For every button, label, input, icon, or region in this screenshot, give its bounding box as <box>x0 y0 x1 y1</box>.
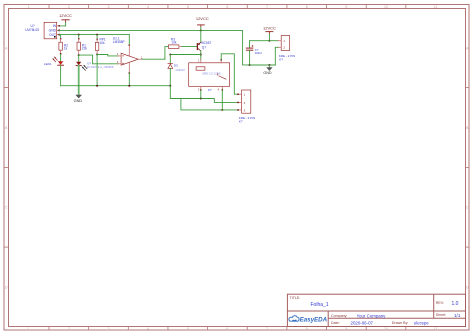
pin 2 coil bottom <box>200 86 202 90</box>
svg-text:2: 2 <box>68 327 70 331</box>
svg-text:4: 4 <box>147 327 149 331</box>
svg-text:D3: D3 <box>174 63 178 67</box>
wire R3 to base <box>182 46 197 48</box>
wire 12VCC2 down <box>200 27 202 30</box>
svg-text:4: 4 <box>147 5 149 9</box>
svg-text:LM358P: LM358P <box>113 40 125 44</box>
svg-text:EasyEDA: EasyEDA <box>300 317 328 324</box>
svg-text:9: 9 <box>345 5 347 9</box>
svg-text:10k: 10k <box>171 41 177 45</box>
svg-text:22k: 22k <box>82 47 88 51</box>
op-amp V- pin 4 <box>128 62 130 73</box>
pin OUT <box>57 34 60 36</box>
svg-text:K?: K? <box>279 57 283 61</box>
node junction D3 bottom / bus <box>169 85 171 87</box>
svg-text:2020-06-07: 2020-06-07 <box>351 321 374 326</box>
svg-text:1/1: 1/1 <box>454 313 461 318</box>
svg-text:LM78L05: LM78L05 <box>25 28 39 32</box>
svg-text:3: 3 <box>108 327 110 331</box>
svg-text:DY-IRX33-A_C99668: DY-IRX33-A_C99668 <box>87 65 114 69</box>
wire relay coil bottom down <box>200 90 202 98</box>
svg-text:REV:: REV: <box>436 301 444 305</box>
svg-text:1N4007: 1N4007 <box>175 68 185 72</box>
svg-text:1: 1 <box>28 5 30 9</box>
svg-text:Date:: Date: <box>331 321 340 325</box>
wire relay NO pin down <box>221 90 223 110</box>
wire 12VCC3 down <box>268 34 270 41</box>
pin 3 common top <box>220 60 222 63</box>
svg-text:elecepe: elecepe <box>414 320 429 325</box>
wire ground bus <box>61 85 171 87</box>
diode D3 1N4007 <box>168 55 186 86</box>
EasyEDA logo <box>289 316 328 324</box>
pin 4 NO bottom <box>221 86 223 90</box>
svg-text:BC557: BC557 <box>202 41 212 45</box>
svg-text:LED1: LED1 <box>44 62 52 66</box>
svg-text:Drawn By:: Drawn By: <box>392 321 409 325</box>
output pin 1 <box>138 58 142 60</box>
svg-text:2: 2 <box>68 5 70 9</box>
svg-text:Sheet:: Sheet: <box>436 313 446 317</box>
ground GND1 <box>74 86 83 103</box>
wire ground bus right <box>250 64 276 66</box>
resistor R3 10k <box>165 37 182 59</box>
node junction photodiode top <box>78 54 80 56</box>
svg-text:GND: GND <box>263 71 272 75</box>
svg-text:GND: GND <box>74 98 83 103</box>
power flag 12VCC (VCC1) <box>59 13 72 22</box>
wire to op-amp pin 3 <box>79 55 118 64</box>
wire 12VCC to U? IN <box>59 23 65 26</box>
transistor Q? BC557 <box>197 30 211 51</box>
svg-text:12VCC: 12VCC <box>59 13 72 18</box>
trimmer RP1 10k <box>95 35 106 55</box>
svg-text:7: 7 <box>266 5 268 9</box>
svg-text:5: 5 <box>187 327 189 331</box>
LED LED1 <box>44 54 63 85</box>
svg-text:11: 11 <box>434 5 438 9</box>
svg-text:10k: 10k <box>100 41 106 45</box>
node junction 12V / C1 / K pin1 <box>268 40 270 42</box>
svg-text:1.0: 1.0 <box>452 301 459 307</box>
node junction C1 bottom <box>249 64 251 66</box>
relay K? SRD-1C-12DS <box>189 59 230 92</box>
svg-text:1k: 1k <box>64 47 68 51</box>
svg-text:7: 7 <box>266 327 268 331</box>
wire D3 bottom to relay coil bottom and 3pin pin2 <box>170 86 238 103</box>
svg-text:12VCC: 12VCC <box>196 16 209 21</box>
svg-text:Company:: Company: <box>331 314 347 318</box>
svg-text:Q?: Q? <box>202 45 206 49</box>
wire collector down <box>200 51 202 59</box>
svg-text:100uf: 100uf <box>255 51 262 55</box>
IR photodiode U? DY-IRX33-A <box>76 55 114 86</box>
wire op-amp output <box>142 58 165 60</box>
svg-text:6: 6 <box>226 327 228 331</box>
svg-text:12VCC: 12VCC <box>263 26 276 31</box>
svg-text:1: 1 <box>28 327 30 331</box>
svg-text:3: 3 <box>108 5 110 9</box>
wire D3 top to collector <box>170 54 201 56</box>
svg-text:TITLE:: TITLE: <box>290 296 301 300</box>
svg-text:K?: K? <box>239 120 243 124</box>
svg-text:Folha_1: Folha_1 <box>311 302 329 308</box>
pin IN <box>57 25 60 27</box>
pin 1 coil top <box>200 59 202 63</box>
wire branch to 3pin pin3 <box>181 99 238 110</box>
svg-text:10: 10 <box>384 5 388 9</box>
power flag 12VCC (VCC3) <box>263 26 276 35</box>
wire to 2pin pin1 and C1 <box>250 40 278 42</box>
svg-text:6: 6 <box>226 5 228 9</box>
wire relay common to 3pin pin1 <box>221 54 238 94</box>
ground GND2 <box>263 65 272 75</box>
pin GND <box>57 29 60 31</box>
node junction collector / D3 <box>200 54 202 56</box>
svg-text:8: 8 <box>306 327 308 331</box>
svg-text:11: 11 <box>434 327 438 331</box>
wire rail lower (OUT rail) <box>59 34 129 36</box>
wire 2pin pin2 to ground bus <box>275 47 278 65</box>
svg-text:10: 10 <box>384 327 388 331</box>
resistor R1 22k <box>77 35 87 56</box>
connector K? KRE - 2 PIN <box>278 36 295 62</box>
svg-text:8: 8 <box>306 5 308 9</box>
capacitor C1 100uf <box>246 45 261 65</box>
svg-text:9: 9 <box>345 327 347 331</box>
connector K? KRE - 3 PIN <box>237 90 255 124</box>
svg-text:Your Company: Your Company <box>357 313 387 318</box>
resistor R2 1k <box>59 35 68 55</box>
op-amp U1.1 LM358P <box>113 35 143 86</box>
power flag 12VCC (VCC2) <box>196 16 209 27</box>
wire rail upper (GND pin rail to right) <box>59 30 249 65</box>
wire RP1 to op-amp pin 2 <box>97 55 118 56</box>
svg-text:K?: K? <box>208 88 212 92</box>
node junction RP1 tap <box>96 54 98 56</box>
node junction on rail at 12VCC2 <box>200 29 202 31</box>
wire RP1 down to bus <box>96 55 98 86</box>
svg-text:5: 5 <box>187 5 189 9</box>
voltage regulator U1 LM78L05 <box>25 22 60 39</box>
op-amp V+ pin 8 <box>128 35 130 46</box>
title block <box>287 294 465 326</box>
